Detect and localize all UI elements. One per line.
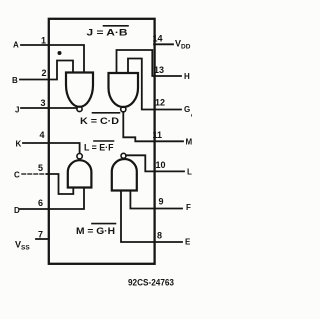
pin 7 wire (VSS) (36, 238, 49, 240)
NAND gate U4 (E,F -> L) body (112, 159, 137, 191)
pin 8 wire (input E) (121, 191, 182, 243)
overline for equation J = A·B (104, 25, 129, 27)
NAND gate U1 output bubble (77, 106, 82, 111)
svg-text:7: 7 (38, 230, 43, 240)
overline for equation M = G·H (92, 223, 116, 225)
svg-text:D: D (14, 206, 20, 215)
svg-text:M = G·H: M = G·H (76, 226, 115, 236)
pin 6 wire (input D) (20, 188, 84, 210)
svg-text:1: 1 (41, 36, 46, 46)
pin 10 wire (output L) (126, 155, 184, 171)
svg-text:14: 14 (153, 34, 163, 44)
NAND gate U3 (C,D -> K) body (68, 160, 92, 187)
svg-text:3: 3 (41, 98, 46, 108)
NAND gate U2 output bubble (121, 107, 126, 112)
overline for equation L = E·F (94, 140, 114, 142)
pin 4 wire (output K) (23, 143, 80, 153)
svg-text:K: K (16, 140, 22, 149)
svg-text:H: H (184, 72, 190, 81)
svg-text:F: F (186, 203, 191, 212)
svg-text:VDD: VDD (175, 39, 191, 51)
NAND gate U2 (G,H -> M) body (109, 73, 139, 107)
svg-text:E: E (185, 238, 191, 247)
svg-text:M: M (186, 138, 193, 147)
pin 3 wire (output J) (21, 107, 77, 109)
NAND gate U4 output bubble (121, 153, 126, 158)
svg-text:8: 8 (157, 231, 162, 241)
svg-text:K = C·D: K = C·D (80, 116, 120, 126)
svg-text:92CS-24763: 92CS-24763 (128, 278, 174, 289)
svg-text:B: B (12, 76, 18, 85)
pin 14 wire (VDD) (154, 43, 173, 45)
svg-text:6: 6 (38, 198, 43, 208)
svg-text:,: , (191, 111, 193, 118)
svg-text:9: 9 (159, 197, 164, 207)
svg-text:5: 5 (38, 163, 43, 173)
svg-text:L: L (187, 168, 192, 177)
svg-text:J: J (15, 106, 19, 115)
NAND gate U3 output bubble (77, 154, 82, 159)
pin 2 wire (input B) (20, 61, 73, 80)
svg-text:13: 13 (154, 65, 164, 75)
NAND gate U1 (A,B -> J) body (66, 73, 93, 107)
svg-text:C: C (14, 171, 20, 180)
svg-text:G: G (184, 105, 190, 114)
svg-text:L = E·F: L = E·F (84, 143, 114, 153)
svg-text:J = A·B: J = A·B (87, 28, 129, 38)
svg-text:4: 4 (40, 130, 45, 140)
svg-text:10: 10 (156, 160, 166, 170)
pin 11 wire (output M) (123, 112, 183, 141)
svg-text:VSS: VSS (15, 240, 30, 252)
IC package body outline (49, 19, 155, 264)
svg-text:2: 2 (42, 68, 47, 78)
svg-text:A: A (13, 41, 19, 50)
pin 12 wire (input G) (128, 59, 181, 110)
svg-text:11: 11 (153, 130, 163, 140)
svg-text:12: 12 (155, 98, 165, 108)
pin 9 wire (input F) (130, 191, 182, 209)
pin 13 wire (input H) (117, 50, 182, 76)
pin 1 wire (input A) (21, 45, 84, 73)
pin 5 wire (input C) (22, 173, 47, 175)
junction dot artifact (58, 51, 62, 55)
overline for equation K = C·D (93, 112, 120, 114)
